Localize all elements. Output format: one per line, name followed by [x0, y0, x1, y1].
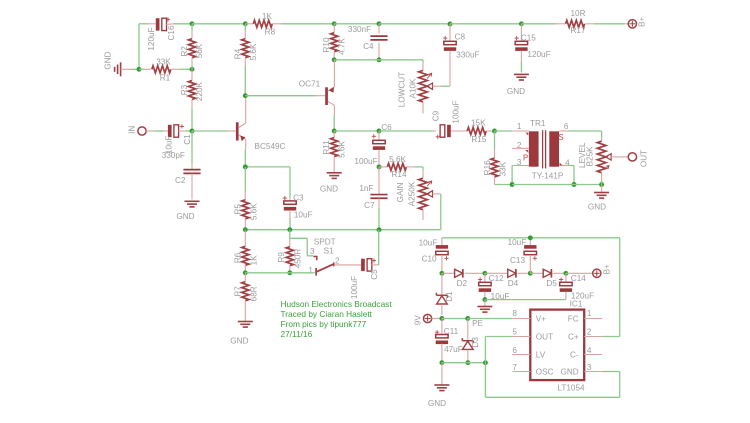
svg-text:3: 3: [517, 158, 522, 167]
node negative rail x485: [483, 360, 488, 365]
pad IN input jack: [138, 127, 146, 135]
svg-text:100uF: 100uF: [350, 276, 359, 299]
wire top rail to R17: [521, 23, 556, 25]
svg-text:OUT: OUT: [536, 332, 553, 341]
svg-text:1nF: 1nF: [359, 184, 373, 193]
node CP top rail x530: [528, 235, 533, 240]
wire pin3 down to secondary rail: [511, 166, 513, 185]
diode D1 zener: [441, 273, 443, 294]
svg-text:S1: S1: [324, 247, 334, 256]
wire top rail to R4: [192, 23, 245, 25]
node C6 top: [377, 129, 382, 134]
svg-text:5.6K: 5.6K: [249, 43, 258, 60]
svg-text:TR1: TR1: [530, 119, 546, 128]
svg-text:10R: 10R: [570, 9, 585, 18]
node secondary rail x512: [510, 182, 515, 187]
wire emitter rail C4 to LOWCUT: [379, 59, 423, 61]
svg-text:BC549C: BC549C: [255, 142, 286, 151]
node top rail x450: [448, 22, 453, 27]
svg-text:C2: C2: [175, 176, 186, 185]
wire common row to switch: [245, 272, 314, 274]
svg-text:S: S: [558, 133, 563, 142]
svg-text:1: 1: [308, 266, 313, 275]
svg-text:1K: 1K: [262, 12, 273, 21]
svg-text:9V: 9V: [413, 315, 422, 326]
svg-text:R8: R8: [265, 28, 276, 37]
node top rail x334: [332, 21, 337, 26]
svg-text:LT1054: LT1054: [557, 383, 585, 392]
wire C16 to node: [174, 23, 192, 25]
node collector junction x245 y95.7: [243, 93, 248, 98]
svg-text:5.6K: 5.6K: [338, 141, 347, 158]
node rail x379: [377, 227, 382, 232]
node top rail x379: [377, 21, 382, 26]
wire negative rail row: [442, 362, 486, 364]
wire BC549C collector to OC71 base: [245, 95, 316, 97]
svg-text:C1: C1: [183, 134, 192, 145]
node CP rail x441: [439, 271, 444, 276]
wire base of BC549C: [192, 130, 228, 132]
pin 4 C-: [584, 354, 602, 356]
svg-text:B+: B+: [602, 264, 611, 274]
wire top rail to C8: [379, 23, 450, 25]
svg-text:56K: 56K: [195, 43, 204, 58]
svg-text:6: 6: [512, 346, 517, 355]
svg-text:Hudson Electronics Broadcast: Hudson Electronics Broadcast: [281, 299, 393, 309]
svg-text:33K: 33K: [156, 57, 171, 66]
ground GND below C2: [185, 200, 200, 202]
wire top rail to C4: [334, 23, 379, 25]
wire top supply rail left segment: [139, 23, 148, 25]
svg-text:B+: B+: [637, 16, 646, 26]
svg-text:R10: R10: [322, 37, 331, 52]
svg-text:OC71: OC71: [299, 80, 321, 89]
svg-text:C7: C7: [364, 201, 375, 210]
svg-text:68R: 68R: [249, 286, 258, 301]
svg-text:D2: D2: [457, 279, 468, 288]
node top rail x521: [519, 21, 524, 26]
svg-text:2: 2: [587, 328, 592, 337]
svg-text:2: 2: [517, 141, 522, 150]
svg-text:120uF: 120uF: [147, 27, 156, 50]
capacitor C9 100uF: [379, 130, 433, 132]
svg-text:B25K: B25K: [585, 146, 594, 167]
svg-text:33K: 33K: [498, 161, 507, 176]
wire emitter row BC549C to C3: [245, 166, 290, 168]
wire R16 bottom corner: [495, 184, 513, 186]
capacitor C11 47uF: [441, 319, 443, 336]
svg-text:330nF: 330nF: [348, 25, 371, 34]
svg-text:7: 7: [512, 363, 517, 372]
svg-text:R6: R6: [234, 252, 243, 263]
resistor R14 5.6K: [379, 166, 387, 168]
pad 9V battery input: [423, 314, 431, 322]
svg-text:2: 2: [335, 256, 340, 265]
potentiometer GAIN A250K: [422, 167, 424, 170]
svg-text:5: 5: [512, 328, 517, 337]
svg-text:R3: R3: [180, 84, 189, 95]
node D3 bottom: [465, 360, 470, 365]
svg-text:D5: D5: [546, 279, 557, 288]
potentiometer LOWCUT A10K: [422, 62, 424, 70]
svg-text:100uF: 100uF: [452, 100, 461, 123]
wire pin6 to LEVEL pot: [568, 130, 602, 132]
svg-text:C8: C8: [455, 33, 466, 42]
svg-text:A250K: A250K: [408, 181, 417, 206]
node rail x290: [287, 227, 292, 232]
svg-text:GND: GND: [176, 212, 194, 221]
svg-text:OUT: OUT: [639, 150, 648, 167]
svg-text:D4: D4: [508, 279, 519, 288]
svg-text:D3: D3: [471, 337, 480, 348]
resistor R2 56K: [191, 24, 193, 31]
node junction R1/R2/R3: [190, 67, 195, 72]
wire C14 bottom to C12 bottom: [485, 299, 566, 301]
svg-text:220K: 220K: [195, 81, 204, 101]
svg-text:Traced by Ciaran Haslett: Traced by Ciaran Haslett: [281, 309, 373, 319]
switch S1 SPDT: [313, 257, 316, 261]
node 9V row x441: [439, 316, 444, 321]
diode D5: [530, 272, 543, 274]
svg-text:LOWCUT: LOWCUT: [398, 72, 407, 107]
node C4 bottom: [377, 57, 382, 62]
wire C5 up to bottom rail: [378, 230, 380, 265]
pad OUT output jack: [628, 153, 636, 161]
node input/base junction: [190, 129, 195, 134]
pin 5 OUT: [512, 336, 530, 338]
svg-text:LV: LV: [536, 350, 546, 359]
capacitor C10 10uF: [441, 238, 443, 246]
wire bottom feedback rail: [245, 229, 440, 231]
node secondary rail x574: [572, 182, 577, 187]
svg-text:C12: C12: [489, 274, 504, 283]
wire 9V row to PE node: [442, 318, 468, 320]
svg-text:GND: GND: [103, 51, 112, 69]
svg-text:3: 3: [310, 247, 315, 256]
resistor R6 1K: [244, 230, 246, 247]
ground GND below R7: [238, 321, 253, 323]
svg-text:R5: R5: [234, 204, 243, 215]
svg-text:C11: C11: [444, 327, 459, 336]
svg-text:C9: C9: [432, 110, 441, 121]
svg-text:100uF: 100uF: [354, 157, 377, 166]
svg-text:P: P: [523, 154, 528, 163]
ground GND top-left: [120, 62, 122, 76]
svg-text:C15: C15: [521, 33, 536, 42]
capacitor C16 120uF: [148, 23, 156, 25]
node rail x245: [243, 227, 248, 232]
wire top rail to C15: [450, 23, 521, 25]
capacitor C4 330nF: [378, 24, 380, 34]
capacitor C15 120uF: [520, 24, 522, 42]
wire collector rail to C6: [334, 130, 379, 132]
diode D2: [442, 272, 455, 274]
ground GND below LEVEL: [601, 185, 603, 193]
capacitor C12 10uF: [484, 273, 486, 282]
pin 3 GND: [584, 371, 602, 373]
wire R17 to B+ pad: [594, 23, 625, 25]
wire OUT pin to negative rail: [484, 337, 486, 363]
svg-text:FC: FC: [568, 314, 579, 323]
svg-text:V+: V+: [536, 314, 546, 323]
node junction at R1 left: [137, 67, 142, 72]
svg-text:330pF: 330pF: [162, 151, 185, 160]
node OC71 collector junction: [332, 129, 337, 134]
op-amp IC1 LT1054 body: [530, 310, 584, 381]
svg-text:R1: R1: [160, 74, 171, 83]
capacitor C2 330pF: [191, 131, 193, 164]
wire top rail vertical drop to ground row: [138, 24, 140, 70]
svg-text:C+: C+: [568, 332, 579, 341]
svg-text:IC1: IC1: [570, 300, 583, 309]
capacitor C13 10uF: [529, 238, 531, 246]
wire charge pump top rail: [442, 237, 620, 239]
resistor R8 1K: [245, 23, 253, 25]
resistor R3 220K: [191, 69, 193, 80]
svg-text:15K: 15K: [471, 118, 486, 127]
svg-text:GND: GND: [588, 202, 606, 211]
svg-text:R7: R7: [234, 286, 243, 297]
svg-text:3: 3: [587, 363, 592, 372]
capacitor C5 100uF: [335, 264, 361, 266]
capacitor C14 120uF: [565, 273, 567, 282]
svg-text:C-: C-: [570, 350, 579, 359]
node R6/R7 junction: [243, 270, 248, 275]
svg-text:GND: GND: [428, 399, 446, 408]
capacitor C1 10uF: [146, 130, 153, 132]
svg-text:C10: C10: [422, 255, 437, 264]
ground GND below C15: [514, 73, 529, 75]
node top rail x192: [190, 21, 195, 26]
capacitor C3 10uF: [289, 167, 291, 197]
pad B+ boosted output: [566, 272, 593, 274]
svg-text:R14: R14: [391, 170, 406, 179]
svg-text:PE: PE: [472, 319, 483, 328]
svg-text:330uF: 330uF: [456, 50, 479, 59]
svg-text:10uF: 10uF: [508, 238, 527, 247]
svg-text:8: 8: [512, 309, 517, 318]
transformer TR1 TY-141P: [495, 130, 513, 132]
pin 6 LV: [512, 354, 530, 356]
node C6 bottom / R14 / C7: [377, 164, 382, 169]
svg-text:47uF: 47uF: [444, 345, 463, 354]
capacitor C6 100uF: [378, 131, 380, 141]
svg-text:R16: R16: [483, 160, 492, 175]
svg-text:SPDT: SPDT: [314, 237, 336, 246]
svg-text:C13: C13: [510, 256, 525, 265]
resistor R15 15K: [467, 127, 486, 134]
svg-text:IN: IN: [127, 126, 136, 134]
node R15/R16/TR1 junction: [492, 129, 497, 134]
wire secondary bottom rail: [512, 184, 602, 186]
node secondary rail x601: [599, 182, 604, 187]
wire GAIN wiper down to bottom rail: [440, 194, 442, 230]
pin 7 OSC: [512, 371, 530, 373]
node C12 bottom: [482, 297, 487, 302]
pad B+ supply output: [628, 20, 636, 28]
transistor Q2 OC71: [325, 87, 328, 105]
svg-text:C16: C16: [167, 25, 176, 40]
svg-text:C14: C14: [571, 274, 586, 283]
svg-text:6: 6: [564, 122, 569, 131]
wire emitter rail OC71 to C4: [334, 59, 379, 61]
resistor R16 33K: [494, 131, 496, 149]
svg-text:GAIN: GAIN: [396, 182, 405, 202]
svg-text:27/11/16: 27/11/16: [281, 329, 313, 339]
resistor R9 450R: [289, 230, 291, 239]
node R9 bottom junction: [287, 270, 292, 275]
svg-text:1: 1: [517, 122, 522, 131]
pin 2 C+: [584, 336, 602, 338]
node CP rail x484: [482, 271, 487, 276]
resistor R1 33K: [139, 68, 144, 70]
pin 8 V+: [512, 318, 530, 320]
resistor R17 10R: [556, 23, 565, 25]
wire negative rail down to GND pin loop: [484, 363, 486, 398]
node CP rail x530: [528, 271, 533, 276]
svg-text:5.6K: 5.6K: [389, 155, 406, 164]
svg-text:1: 1: [587, 309, 592, 318]
resistor R5 5.6K: [244, 167, 246, 192]
ground GND charge pump: [484, 300, 486, 307]
node emitter rail x334: [332, 57, 337, 62]
svg-text:GND: GND: [230, 337, 248, 346]
node PE: [465, 316, 470, 321]
svg-text:120uF: 120uF: [527, 50, 550, 59]
svg-text:GND: GND: [320, 185, 338, 194]
svg-text:D1: D1: [445, 291, 454, 302]
resistor R4 5.6K: [244, 24, 246, 31]
wire top rail corner down to C+ pin: [619, 238, 621, 337]
svg-text:R9: R9: [277, 252, 286, 263]
ground GND below R11: [333, 167, 335, 173]
diode D4: [485, 272, 508, 274]
resistor R10 4.7K: [333, 24, 335, 33]
svg-text:C3: C3: [293, 194, 304, 203]
svg-text:R2: R2: [180, 46, 189, 57]
node top rail x245: [243, 21, 248, 26]
svg-text:GND: GND: [507, 87, 525, 96]
svg-text:C4: C4: [363, 42, 374, 51]
wire R9 top to switch throw 3: [290, 237, 307, 239]
resistor R11 5.6K collector load: [333, 131, 335, 138]
svg-text:From pics by tipunk777: From pics by tipunk777: [281, 319, 367, 329]
svg-text:GND: GND: [560, 367, 578, 376]
svg-text:4: 4: [587, 346, 592, 355]
svg-text:4: 4: [565, 159, 570, 168]
wire PE node to V+ pin: [468, 318, 513, 320]
transistor Q1 BC549C: [236, 122, 239, 140]
svg-text:TY-141P: TY-141P: [532, 172, 564, 181]
node CP rail x565: [563, 271, 568, 276]
capacitor C7 1nF: [378, 167, 380, 194]
ground GND below C11: [441, 363, 443, 385]
svg-text:4.7K: 4.7K: [338, 38, 347, 55]
svg-text:10uF: 10uF: [294, 211, 313, 220]
wire pin4 down to secondary rail: [568, 165, 574, 167]
svg-text:1K: 1K: [249, 255, 258, 266]
svg-text:R15: R15: [471, 135, 486, 144]
svg-text:R17: R17: [570, 26, 585, 35]
node C11 bottom: [439, 360, 444, 365]
diode D3 zener: [467, 319, 469, 340]
svg-text:R4: R4: [234, 48, 243, 59]
svg-text:A10K: A10K: [409, 78, 418, 99]
pin 1 FC: [584, 318, 602, 320]
svg-text:R11: R11: [322, 140, 331, 155]
svg-text:5.6K: 5.6K: [249, 203, 258, 220]
svg-text:450R: 450R: [294, 249, 303, 269]
svg-text:C5: C5: [370, 269, 379, 280]
svg-text:10uF: 10uF: [419, 238, 438, 247]
resistor R7 68R: [244, 273, 246, 282]
wire top rail middle segment: [281, 23, 334, 25]
node emitter row x245: [243, 164, 248, 169]
potentiometer LEVEL B25K: [601, 138, 603, 141]
svg-text:OSC: OSC: [536, 367, 554, 376]
capacitor C8 330uF: [449, 24, 451, 42]
